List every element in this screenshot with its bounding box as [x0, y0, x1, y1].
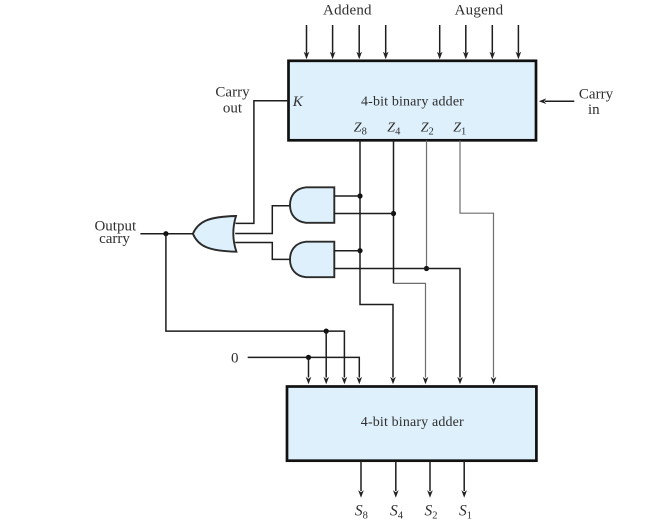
AND gate A1	[290, 187, 334, 223]
wire output S1 arrow	[461, 461, 467, 498]
svg-text:4-bit binary adder: 4-bit binary adder	[361, 415, 464, 430]
wire 0 feed branch arrow	[306, 357, 312, 384]
label S2	[425, 503, 438, 522]
svg-text:K: K	[292, 94, 304, 110]
label S4	[390, 503, 404, 522]
pin label Z4	[387, 120, 401, 137]
wire AND2 upper input from Z8	[334, 250, 360, 252]
svg-text:S2: S2	[425, 503, 438, 522]
wire OR output carry	[140, 233, 193, 235]
svg-text:carry: carry	[99, 231, 130, 247]
wire K carry-out to OR gate	[236, 101, 288, 224]
svg-text:Carry: Carry	[579, 87, 614, 103]
svg-text:Augend: Augend	[455, 3, 504, 19]
wire AND2 lower input from Z2 into adder	[334, 269, 463, 385]
label S1	[459, 503, 472, 522]
label S8	[355, 503, 368, 522]
wire net Z4	[394, 141, 429, 385]
wire augend input arrow 2	[463, 25, 469, 59]
svg-text:in: in	[588, 102, 600, 118]
wire augend input arrow 3	[490, 25, 496, 59]
wire 0 input	[248, 357, 362, 384]
wire addend input arrow 2	[330, 25, 336, 59]
svg-text:out: out	[223, 101, 243, 117]
wire AND2 output to OR	[235, 243, 289, 260]
svg-text:S4: S4	[390, 503, 404, 522]
junction dot Z2/AND2	[424, 266, 429, 271]
junction dot Z8/AND1	[357, 193, 362, 198]
label Carry out	[215, 84, 250, 116]
wire output carry feedback to adder correction	[166, 234, 347, 385]
wire AND1 upper input from Z8	[334, 195, 360, 197]
wire net Z8	[360, 141, 396, 385]
label Output carry	[94, 219, 137, 248]
svg-text:4-bit binary adder: 4-bit binary adder	[361, 95, 464, 110]
label Carry in	[579, 87, 614, 118]
wire addend input arrow 1	[304, 25, 310, 59]
AND gate A2	[290, 242, 334, 278]
OR gate O1	[193, 216, 237, 252]
label Augend	[455, 3, 504, 19]
wire carry-in arrow	[539, 98, 575, 104]
pin label Z1	[453, 120, 466, 137]
junction dot output carry	[163, 231, 168, 236]
svg-text:0: 0	[231, 351, 239, 367]
svg-text:Carry: Carry	[215, 84, 250, 100]
wire AND1 output to OR	[235, 206, 289, 234]
svg-text:Addend: Addend	[323, 3, 372, 19]
wire net Z2	[426, 141, 428, 269]
label Addend	[323, 3, 372, 19]
pin label Z8	[354, 120, 367, 137]
wire augend input arrow 4	[516, 25, 522, 59]
wire addend input arrow 4	[383, 25, 389, 59]
label 0	[231, 351, 239, 367]
wire output S2 arrow	[427, 461, 433, 498]
wire augend input arrow 1	[437, 25, 443, 59]
wire net Z1	[460, 141, 496, 385]
svg-text:S8: S8	[355, 503, 368, 522]
4-bit binary adder U1 (top)	[289, 61, 537, 141]
pin label K	[292, 94, 304, 110]
wire output S8 arrow	[358, 461, 364, 498]
wire output S4 arrow	[393, 461, 399, 498]
4-bit binary adder U2 (bottom)	[287, 387, 536, 461]
junction dot 0 feed	[306, 355, 311, 360]
junction dot Z4/AND1	[391, 211, 396, 216]
junction dot Z8/AND2	[357, 248, 362, 253]
wire carry feed branch arrow	[323, 331, 329, 384]
wire addend input arrow 3	[356, 25, 362, 59]
wire AND1 lower input from Z4	[334, 213, 393, 215]
pin label Z2	[421, 120, 434, 137]
junction dot carry feed	[324, 329, 329, 334]
svg-text:S1: S1	[459, 503, 472, 522]
